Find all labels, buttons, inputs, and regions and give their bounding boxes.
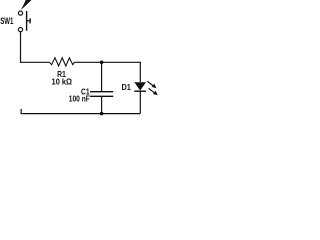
- wire from C1 down to bottom rail: [101, 96, 103, 113]
- svg-text:100 nF: 100 nF: [69, 93, 90, 103]
- bottom rail wire with left hook: [21, 109, 140, 114]
- wire top rail from R1 to LED corner: [74, 62, 140, 82]
- svg-text:SW1: SW1: [0, 16, 13, 26]
- node junction top: [100, 61, 104, 65]
- capacitor C1 bottom plate: [90, 95, 113, 97]
- LED D1 emission arrow 1: [147, 81, 156, 88]
- wire from SW1 down and right to R1: [21, 32, 50, 62]
- switch SW1 actuator cap: [29, 18, 31, 23]
- svg-text:D1: D1: [122, 82, 132, 92]
- switch SW1 top terminal: [18, 11, 22, 15]
- capacitor C1 top plate: [90, 91, 113, 93]
- LED D1 cathode bar: [134, 90, 146, 92]
- wire from junction down to C1: [101, 62, 103, 91]
- wire from LED to bottom rail: [139, 91, 141, 113]
- resistor R1: [50, 58, 75, 66]
- switch SW1 contact bar: [26, 11, 28, 31]
- switch SW1 lever blade: [21, 0, 32, 10]
- LED D1 triangle: [134, 82, 146, 90]
- LED D1 emission arrow 2: [149, 88, 158, 95]
- switch SW1 bottom terminal: [18, 28, 22, 32]
- node junction bottom: [100, 112, 104, 116]
- switch SW1 actuator stem: [27, 20, 30, 22]
- svg-text:10 kΩ: 10 kΩ: [52, 77, 73, 87]
